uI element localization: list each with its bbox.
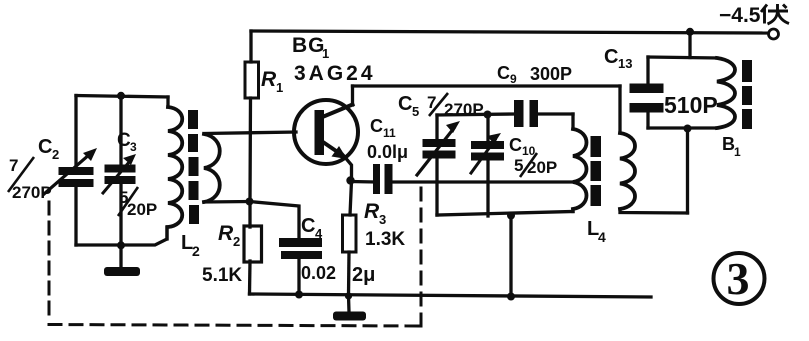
wire: output tank top: [648, 57, 717, 58]
capacitor C13 (510P): [630, 57, 664, 128]
slash for 7/270P (C5): [429, 93, 448, 116]
svg-text:C: C: [301, 215, 315, 237]
svg-text:0.0lμ: 0.0lμ: [367, 142, 408, 162]
svg-text:4: 4: [598, 229, 606, 245]
transformer L4: [573, 114, 688, 213]
capacitor C11 (0.01u): [352, 164, 574, 194]
wire: tank top corner into L2 primary: [166, 97, 169, 107]
wire: rail down to R1: [249, 31, 252, 62]
wire: output tank bottom: [648, 126, 717, 129]
wire: ground rail: [250, 294, 652, 297]
svg-text:BG: BG: [292, 34, 326, 57]
svg-text:1: 1: [734, 145, 741, 159]
capacitor C2 (variable 7/270P): [44, 96, 97, 246]
capacitor C10 (trimmer 5/20P): [471, 115, 504, 216]
node: ground rail junction: [507, 293, 515, 301]
svg-text:1.3K: 1.3K: [365, 229, 405, 250]
svg-text:2μ: 2μ: [352, 264, 375, 286]
L4 core: [591, 136, 602, 157]
svg-text:C: C: [497, 63, 510, 83]
wire: rail down to output tank: [688, 32, 691, 58]
svg-text:C: C: [38, 136, 52, 158]
L2 secondary winding: [204, 134, 220, 202]
capacitor C9 (300P): [514, 100, 573, 127]
wire: input tank bottom: [76, 227, 167, 245]
wire: oscillator tank bottom: [437, 212, 573, 216]
ground (emitter): [347, 296, 351, 312]
wire: input tank top: [76, 96, 168, 98]
svg-text:2: 2: [52, 147, 59, 162]
slash for 7/270P (C2): [8, 157, 34, 192]
svg-text:13: 13: [618, 56, 632, 71]
svg-text:C: C: [604, 46, 618, 68]
svg-text:20P: 20P: [127, 200, 157, 219]
node: R3 ground-rail junction: [345, 292, 352, 299]
svg-text:4: 4: [315, 226, 323, 241]
svg-text:C: C: [117, 130, 131, 151]
wire: gang link dashed (tuning capacitor mechanical link): [48, 202, 51, 322]
node: emitter node: [346, 176, 354, 184]
L2 core: [188, 110, 198, 129]
svg-text:1: 1: [276, 80, 283, 95]
wire: collector line down to L4 secondary: [618, 86, 621, 133]
wire: output tank bottom drop: [686, 129, 689, 214]
wire: -4.5V power rail: [251, 31, 768, 33]
L4 secondary winding: [620, 133, 635, 209]
svg-text:11: 11: [383, 126, 396, 140]
node: C3 top junction: [117, 92, 125, 100]
L2 primary winding: [168, 107, 182, 227]
capacitor C3 (trimmer 5/20P): [103, 96, 136, 246]
svg-text:2: 2: [192, 243, 200, 259]
wire: L4 secondary bottom to output tank: [620, 209, 688, 213]
svg-text:R: R: [261, 68, 277, 91]
wire: L2 secondary bottom to bias node: [204, 200, 249, 204]
node: R1/R2/L2 junction: [246, 198, 254, 206]
B1 core: [742, 60, 752, 82]
node: tank bottom to ground junction: [507, 212, 515, 220]
L4 primary winding: [573, 129, 587, 209]
svg-text:0.02: 0.02: [301, 263, 336, 283]
svg-text:7: 7: [9, 156, 18, 175]
terminal: -4.5V supply terminal: [769, 29, 779, 39]
fraction slashes: [8, 93, 537, 216]
svg-text:5.1K: 5.1K: [202, 265, 242, 286]
svg-text:270P: 270P: [444, 100, 484, 119]
svg-text:9: 9: [510, 72, 517, 86]
wire: oscillator tank top: [437, 114, 514, 115]
node: rail to output tank junction: [686, 28, 694, 36]
svg-text:R: R: [218, 222, 234, 245]
resistor R3: [343, 181, 357, 296]
resistor R1: [245, 62, 259, 98]
node: tank bottom junction: [117, 241, 125, 249]
wire: R1 bottom down to bias node: [248, 98, 252, 201]
node: C10 top junction: [484, 111, 492, 119]
node: C4 ground junction: [295, 291, 303, 299]
svg-text:C: C: [509, 135, 522, 155]
wire: base wire from L2 secondary to transistor: [204, 132, 296, 134]
emitter lead with arrow: [320, 140, 342, 155]
svg-text:5: 5: [412, 104, 419, 119]
svg-text:510P: 510P: [664, 92, 718, 118]
node: output tank bottom junction: [684, 125, 692, 133]
svg-text:270P: 270P: [12, 183, 52, 202]
capacitor C5 (variable 7/270P): [417, 115, 460, 215]
svg-text:C: C: [398, 93, 412, 115]
wire: bias node to R2: [248, 201, 251, 227]
capacitor C4 (0.02): [250, 202, 323, 295]
transistor BG1 (3AG24): [294, 86, 358, 181]
svg-text:R: R: [364, 200, 380, 223]
ground (input tank): [119, 245, 122, 268]
wire: R2 bottom to ground rail: [248, 261, 252, 294]
svg-text:3: 3: [379, 212, 386, 227]
svg-text:2: 2: [233, 234, 240, 249]
resistor R2: [244, 226, 262, 262]
slash for 5/20P (C3): [118, 187, 138, 216]
svg-text:300P: 300P: [530, 64, 572, 84]
collector lead: [320, 105, 353, 119]
svg-text:3: 3: [130, 140, 137, 154]
wire: collector line to L4: [353, 84, 621, 87]
slash for 5/20P (C10): [520, 153, 537, 177]
svg-text:3: 3: [727, 253, 750, 304]
transformer B1 winding: [717, 58, 735, 128]
svg-text:C: C: [370, 116, 383, 136]
svg-text:1: 1: [322, 46, 329, 61]
svg-text:−4.5: −4.5: [719, 4, 761, 27]
wire: tank bottom to ground rail: [509, 216, 512, 297]
svg-text:3AG24: 3AG24: [294, 62, 376, 85]
transformer L2: [167, 97, 249, 239]
wire: L2 primary bottom lead: [165, 227, 168, 239]
wire: C9 to L4 primary top: [571, 114, 574, 129]
figure number 3 (circled): [714, 253, 765, 304]
